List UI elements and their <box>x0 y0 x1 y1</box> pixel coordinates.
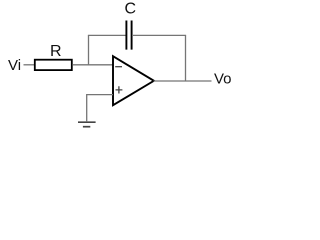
wire resistor to op-amp inverting input <box>72 64 113 66</box>
wire feedback left vertical <box>88 35 90 65</box>
resistor R <box>35 60 72 70</box>
svg-text:R: R <box>50 43 62 60</box>
wire non-inverting input to ground <box>87 95 113 122</box>
capacitor C <box>126 21 131 50</box>
svg-text:C: C <box>125 0 137 17</box>
op-amp minus input sign <box>115 66 122 68</box>
op-amp U1 <box>113 56 154 105</box>
wire capacitor to feedback right vertical <box>132 34 186 36</box>
ground <box>78 121 96 123</box>
wire feedback right vertical to output <box>185 35 187 81</box>
wire Vi to resistor R <box>24 64 35 66</box>
wire op-amp output to Vo <box>154 80 212 82</box>
wire feedback top left to capacitor <box>88 34 126 36</box>
op-amp plus input sign <box>116 86 123 93</box>
svg-text:Vi: Vi <box>8 57 21 74</box>
svg-text:Vo: Vo <box>214 70 232 87</box>
